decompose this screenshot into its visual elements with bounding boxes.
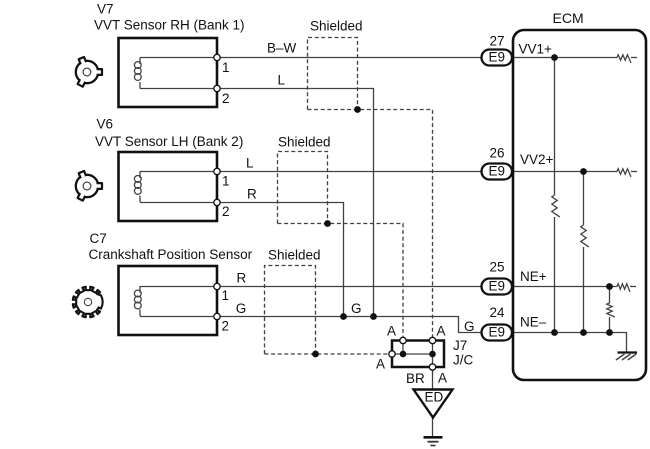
svg-text:1: 1 <box>222 288 230 303</box>
svg-text:Crankshaft Position Sensor: Crankshaft Position Sensor <box>89 247 253 262</box>
svg-text:Shielded: Shielded <box>310 19 363 34</box>
svg-text:J/C: J/C <box>453 353 474 368</box>
svg-text:R: R <box>247 187 257 202</box>
svg-text:ED: ED <box>425 390 444 405</box>
svg-text:VV2+: VV2+ <box>520 152 554 167</box>
svg-text:R: R <box>237 271 247 286</box>
svg-text:J7: J7 <box>453 338 467 353</box>
svg-text:Shielded: Shielded <box>268 248 321 263</box>
svg-text:B–W: B–W <box>267 41 297 56</box>
svg-text:2: 2 <box>222 91 230 106</box>
svg-text:ECM: ECM <box>553 10 584 26</box>
svg-text:V6: V6 <box>97 117 114 132</box>
svg-text:26: 26 <box>489 146 504 161</box>
svg-text:A: A <box>438 371 447 386</box>
svg-text:C7: C7 <box>90 231 107 246</box>
svg-text:A: A <box>387 324 396 339</box>
svg-text:G: G <box>464 319 475 334</box>
svg-text:E9: E9 <box>488 279 505 294</box>
svg-text:1: 1 <box>222 174 230 189</box>
svg-text:A: A <box>376 357 385 372</box>
svg-text:VV1+: VV1+ <box>519 42 553 57</box>
svg-text:E9: E9 <box>488 50 505 65</box>
svg-text:24: 24 <box>489 305 505 320</box>
svg-text:27: 27 <box>489 34 504 49</box>
svg-text:NE–: NE– <box>520 315 547 330</box>
svg-text:VVT Sensor RH (Bank 1): VVT Sensor RH (Bank 1) <box>94 18 245 33</box>
svg-text:A: A <box>437 324 446 339</box>
svg-text:25: 25 <box>489 260 504 275</box>
svg-text:V7: V7 <box>97 2 114 17</box>
svg-text:E9: E9 <box>488 325 505 340</box>
svg-text:NE+: NE+ <box>520 269 547 284</box>
svg-text:1: 1 <box>222 60 230 75</box>
svg-text:BR: BR <box>406 371 425 386</box>
svg-text:Shielded: Shielded <box>278 135 331 150</box>
svg-text:G: G <box>236 301 247 316</box>
svg-text:2: 2 <box>222 319 230 334</box>
svg-text:G: G <box>351 301 362 316</box>
svg-text:VVT Sensor LH (Bank 2): VVT Sensor LH (Bank 2) <box>95 134 243 149</box>
svg-text:E9: E9 <box>488 164 505 179</box>
svg-text:2: 2 <box>222 204 230 219</box>
svg-text:L: L <box>246 156 254 171</box>
svg-text:L: L <box>278 73 286 88</box>
